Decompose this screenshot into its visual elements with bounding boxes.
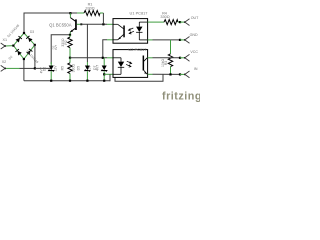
pin OUT connector	[180, 21, 185, 23]
node X2 right-vertex junction	[34, 67, 36, 69]
node R5 bus junction	[69, 80, 71, 82]
connector X2	[1, 65, 5, 71]
pin GND connector	[180, 39, 185, 41]
resistor R5	[69, 58, 71, 63]
wire bridge right vertex down to X2 node	[34, 45, 36, 69]
svg-text:4V7: 4V7	[96, 65, 100, 71]
svg-text:Q1 BC550A: Q1 BC550A	[49, 22, 72, 27]
connector OUT	[185, 19, 190, 26]
phototransistor U2	[143, 56, 148, 75]
light arrows U2	[126, 61, 132, 67]
optocoupler U2 PC817 box	[113, 50, 148, 78]
pin U2 collector vcc stub	[148, 57, 153, 59]
wire GND rail	[153, 39, 181, 41]
svg-text:GND: GND	[190, 33, 198, 37]
zener D5	[86, 62, 88, 66]
svg-text:D5: D5	[77, 66, 81, 70]
node R2 mid-rail junction	[69, 57, 71, 59]
node VCC pin end	[184, 57, 186, 59]
node pin2 mid-rail junction	[102, 57, 104, 59]
optocoupler U1 PC817 box	[113, 19, 148, 44]
diode D2 bridge bottom-left	[13, 46, 24, 59]
pin U2 cathode stub	[104, 73, 113, 75]
svg-text:330Ω: 330Ω	[71, 64, 75, 73]
node bridge left	[12, 45, 14, 47]
svg-text:X1: X1	[3, 38, 8, 42]
pin U1 emitter gnd stub	[148, 39, 153, 41]
pin U2 anode stub	[107, 57, 113, 59]
svg-text:4V7: 4V7	[54, 45, 58, 51]
wire Q1 base rail	[82, 23, 107, 25]
svg-text:D3: D3	[30, 30, 34, 34]
svg-text:330Ω: 330Ω	[85, 7, 94, 11]
connector GND	[185, 37, 190, 44]
resistor R3	[168, 54, 172, 67]
wire zener D5 from base rail	[86, 24, 88, 62]
svg-text:VCC: VCC	[190, 50, 198, 54]
svg-text:R2: R2	[64, 40, 68, 44]
svg-text:X2: X2	[2, 60, 7, 64]
diode D4 bridge bottom-right	[24, 45, 35, 59]
pin U1 pin2 stub	[107, 39, 113, 41]
diode D3 bridge top-right	[24, 33, 35, 45]
wire zener D2 top to emitter rail	[51, 35, 70, 64]
LED U1	[136, 22, 148, 40]
svg-text:330Ω: 330Ω	[160, 15, 169, 19]
svg-text:U1 PC817: U1 PC817	[130, 11, 148, 16]
wire right bus to IN rail	[115, 74, 163, 81]
node D5 bus junction	[86, 80, 88, 82]
node D7 bus junction	[103, 80, 105, 82]
light arrows U1	[128, 28, 134, 34]
connector VCC	[185, 54, 190, 61]
wire mid rail	[70, 57, 107, 59]
node X2 pin end	[4, 68, 6, 70]
connector X1	[1, 43, 5, 49]
node bridge right	[34, 44, 36, 46]
node GND pin end	[184, 39, 186, 41]
svg-text:OUT: OUT	[191, 16, 199, 20]
connector IN	[185, 71, 190, 78]
wire GND to R3 vertical	[170, 40, 172, 54]
wire bridge negative riser	[23, 59, 25, 81]
node OUT wire end	[179, 21, 181, 23]
wire X2 to bridge right vertex	[20, 67, 35, 69]
wire R1 drop to base rail	[102, 13, 104, 24]
node OUT pin end	[184, 21, 186, 23]
zener D7	[103, 58, 105, 66]
LED U2	[113, 58, 124, 75]
resistor R2	[69, 35, 71, 37]
pin VCC connector	[180, 57, 185, 59]
svg-text:IN: IN	[194, 67, 198, 71]
node VCC wire end	[179, 57, 181, 59]
wire bottom bus	[24, 80, 110, 82]
node bridge bottom	[23, 58, 25, 60]
svg-text:R3: R3	[164, 61, 168, 65]
pin IN connector	[180, 73, 185, 75]
wire U1 pin2 to mid rail	[103, 40, 107, 58]
node IN pin end	[184, 74, 186, 76]
resistor R1	[72, 12, 78, 14]
node base R1-drop junction	[102, 23, 104, 25]
phototransistor U1	[113, 24, 125, 40]
svg-text:D2: D2	[43, 67, 47, 71]
node R3 IN junction	[169, 73, 171, 75]
svg-text:fritzing: fritzing	[162, 91, 200, 103]
wire X1 lead	[5, 45, 13, 47]
wire out lead	[153, 21, 165, 23]
svg-text:12V: 12V	[54, 65, 58, 72]
wire X2 node to zener D2 cathode	[35, 67, 51, 69]
wire IN rail	[153, 73, 181, 75]
pin U2 emitter in stub	[148, 73, 153, 75]
svg-text:15V: 15V	[88, 64, 92, 71]
pin U1 anode stub	[107, 23, 113, 25]
node zener D2 bus junction	[50, 80, 52, 82]
svg-text:R5: R5	[61, 66, 65, 70]
node Q1 collector junction	[69, 12, 71, 14]
transistor Q1	[69, 13, 71, 17]
diode D1 bridge top-left	[13, 33, 24, 46]
node D7 pin2 junction	[103, 73, 105, 75]
wire bus up to U2 cathode stub	[109, 74, 111, 81]
wire X2 lead	[5, 67, 20, 69]
node X1 pin end	[4, 45, 6, 47]
pin U1 collector out stub	[148, 21, 153, 23]
zener D2	[50, 62, 52, 66]
node IN wire end	[179, 73, 181, 75]
svg-text:U2 PC817: U2 PC817	[128, 47, 146, 52]
node GND wire end	[179, 39, 181, 41]
wire VCC rail	[153, 57, 181, 59]
node bridge top	[23, 32, 25, 34]
resistor R4	[164, 20, 178, 25]
node Q1 emitter junction	[69, 34, 71, 36]
wire bridge positive riser and top rail	[24, 13, 70, 33]
